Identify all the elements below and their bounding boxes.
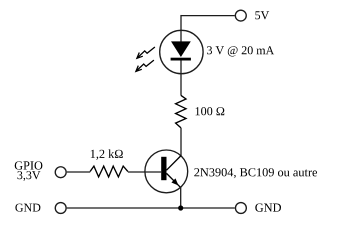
wire ground bus bbox=[67, 207, 235, 209]
wire LED cathode to resistor bbox=[180, 61, 182, 96]
wire emitter to ground bus bbox=[180, 187, 182, 208]
label 2N3904, BC109 ou autre bbox=[194, 168, 317, 178]
wire 5V corner to LED anode bbox=[180, 15, 182, 42]
terminal 5V bbox=[235, 10, 246, 21]
label 5V bbox=[255, 11, 269, 19]
value label 1,2 kohm bbox=[91, 149, 123, 159]
wire resistor to collector bbox=[180, 128, 182, 156]
terminal GND left bbox=[55, 203, 66, 214]
junction emitter-ground bbox=[178, 205, 183, 210]
value label 100 ohm bbox=[196, 107, 225, 115]
value label 3 V @ 20 mA bbox=[207, 46, 274, 56]
LED light arrow upper bbox=[137, 47, 155, 58]
terminal GPIO 3,3V bbox=[55, 167, 66, 178]
label GPIO bbox=[15, 161, 43, 169]
label 3,3V bbox=[18, 171, 41, 181]
terminal GND right bbox=[235, 203, 246, 214]
transistor Q1 NPN 2N3904 bbox=[145, 150, 188, 193]
resistor R1 1,2 kohm bbox=[90, 166, 128, 177]
wire resistor to base bbox=[128, 171, 161, 173]
wire GPIO to resistor bbox=[67, 171, 90, 173]
resistor R2 100 ohm bbox=[176, 95, 186, 128]
label GND left bbox=[15, 204, 40, 212]
wire 5V rail horizontal bbox=[181, 15, 235, 17]
LED D1 bbox=[160, 30, 203, 73]
LED light arrow lower bbox=[136, 60, 154, 71]
label GND right bbox=[255, 204, 281, 212]
